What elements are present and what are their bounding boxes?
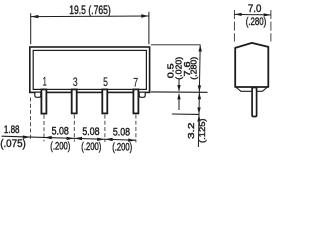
dimension line 7.0 [234,13,271,16]
extension line right for 19.5 dim [148,12,150,44]
svg-text:3.2: 3.2 [186,122,196,139]
extension line right 7.0 dim [270,10,272,42]
side view standoff ledge [236,88,267,92]
svg-text:(.200): (.200) [81,141,101,153]
svg-text:3: 3 [73,75,78,89]
pin 5 lead [102,89,107,113]
arrowhead into body edge (1.88) [23,135,31,138]
pin end reference line [172,113,200,115]
pin 7 lead [133,89,138,113]
arrow up below seating line [198,93,201,100]
dimension line 19.5 [31,15,149,18]
arrowhead at pin1 (shared) [44,136,52,139]
svg-text:7.0: 7.0 [248,3,262,15]
arrowhead left 19.5 [31,15,39,18]
standoff bump left [35,92,41,97]
svg-text:1: 1 [43,75,47,89]
svg-text:5: 5 [103,75,108,89]
svg-text:7: 7 [133,75,138,89]
package body inner outline [33,50,146,89]
0.5 dim lower arrow [178,94,180,110]
arrowhead right 19.5 [141,14,149,17]
arrow up below pin end line [197,115,200,122]
svg-text:1.88: 1.88 [4,124,20,136]
arrowhead right 7.0 [264,13,271,16]
side view body outline [235,43,268,87]
dashed extension below pin 5 [104,115,106,142]
svg-text:5.08: 5.08 [82,126,99,138]
vertical dimension line 7.6 / 3.2 [198,45,200,147]
svg-text:(.280): (.280) [246,16,267,28]
extension line left 7.0 dim [233,10,235,42]
0.5 dim upper arrow [178,80,180,92]
svg-text:(.200): (.200) [50,141,70,153]
arrow up at body top [199,45,202,52]
dashed extension below body left edge [30,98,32,142]
svg-text:(.125): (.125) [197,118,207,143]
pin 1 lead [41,89,46,113]
bottom dimension line (slight scan skew) [2,136,136,140]
arrow down at seating line [198,85,201,92]
dashed extension below pin 7 [135,115,137,143]
dashed extension below pin 1 [43,115,45,141]
side view pin lead [252,88,257,117]
package body outer outline [30,47,150,92]
svg-text:5.08: 5.08 [113,127,130,139]
extension line left for 19.5 dim [30,13,32,44]
arrowhead left 7.0 [235,13,242,16]
svg-text:5.08: 5.08 [52,126,69,138]
pin 3 lead [72,89,77,113]
arrow down above pin end line [197,108,200,115]
svg-text:(.075): (.075) [0,138,26,150]
svg-text:(.280): (.280) [189,57,199,80]
svg-text:(.200): (.200) [112,142,132,154]
extension line body top going right [151,44,201,46]
arrowhead at pin7 [128,139,136,142]
double arrowhead at pin3 [67,137,75,140]
standoff bump right [139,92,145,97]
svg-text:19.5 (.765): 19.5 (.765) [69,3,111,17]
seating plane line [151,91,208,93]
dashed extension below pin 3 [73,115,75,142]
double arrowhead at pin5 [97,138,105,141]
